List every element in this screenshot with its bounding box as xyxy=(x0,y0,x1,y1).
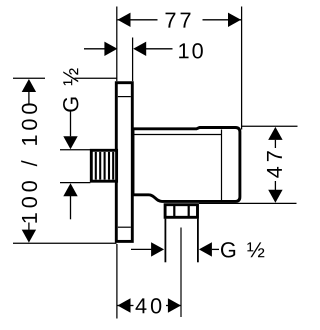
nut facet lines xyxy=(173,204,175,218)
dim 10 right extension line xyxy=(132,38,134,82)
dim 10 label xyxy=(179,43,203,58)
dim G1/2 left: up arrowhead xyxy=(63,183,77,196)
dim 40: right arrowhead xyxy=(168,298,181,312)
dim G1/2 left: label xyxy=(63,68,78,111)
dim 47 bottom extension line xyxy=(199,202,297,204)
outlet centerline xyxy=(180,228,182,318)
hex nut xyxy=(165,205,197,218)
dim 100/100: lower stem xyxy=(28,223,30,230)
dim G1/2 left: upper stem xyxy=(70,110,72,137)
dim 47 up arrowhead xyxy=(268,127,282,140)
dim G1/2 left: top extension line xyxy=(60,149,90,151)
plate face line top xyxy=(118,96,131,98)
dim G1/2 bottom: left arrowhead xyxy=(151,242,164,256)
dim 10 left leader xyxy=(84,48,105,50)
dim 100/100: down arrowhead xyxy=(22,230,36,243)
wall plate (escutcheon side view) xyxy=(116,83,132,242)
outlet pipe walls xyxy=(164,219,166,263)
dim 47 down arrowhead xyxy=(268,190,282,203)
dim 47 dimension line xyxy=(274,140,276,148)
dim 10 left arrowhead xyxy=(104,42,117,56)
dim 77 dimension line xyxy=(118,19,158,21)
dim 40: label xyxy=(136,298,162,313)
dim 10 right leader xyxy=(146,48,173,50)
dim 77 right arrowhead xyxy=(228,13,241,27)
dim G1/2 left: down arrowhead xyxy=(63,136,77,149)
dim G1/2 bottom: right arrowhead xyxy=(199,242,212,256)
body outline xyxy=(133,128,240,202)
dim G1/2 left: lower stem xyxy=(70,196,72,219)
dim 77 left arrowhead xyxy=(118,13,131,27)
dim 100/100: up arrowhead xyxy=(22,79,36,92)
dim 47 top extension line xyxy=(241,125,298,127)
body front edge line xyxy=(221,130,223,201)
dim G1/2 bottom: right leader xyxy=(212,248,219,250)
wall supply thread connector xyxy=(91,150,116,181)
dim 100/100: top extension line xyxy=(13,77,45,79)
thread ribs xyxy=(96,152,113,180)
dim 10 right arrowhead xyxy=(133,42,146,56)
dim 40: dimension line xyxy=(118,305,134,307)
dim 100/100: upper stem xyxy=(28,92,30,104)
dim 40: left extension line xyxy=(116,244,118,319)
dim 40: left arrowhead xyxy=(118,298,131,312)
plate face line bottom xyxy=(118,226,131,228)
body top face line xyxy=(134,134,222,136)
dim G1/2 bottom: left leader xyxy=(131,248,152,250)
dim 47 label xyxy=(267,151,282,178)
dim 100/100: label xyxy=(21,103,37,222)
dim 100/100: bottom extension line xyxy=(13,242,117,244)
dim 77 label xyxy=(166,13,191,28)
dim 77 left extension line (wall face) xyxy=(116,7,118,82)
dim 77 right extension line xyxy=(241,7,243,130)
dim G1/2 bottom: label xyxy=(221,242,264,257)
dim G1/2 left: bottom extension line xyxy=(60,182,90,184)
